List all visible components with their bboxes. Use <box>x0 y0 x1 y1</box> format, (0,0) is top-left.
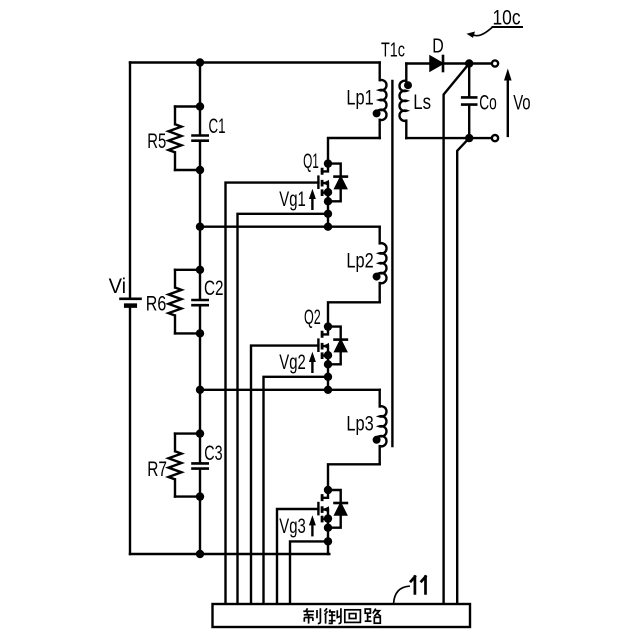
label 11 <box>411 577 426 594</box>
svg-text:R5: R5 <box>147 130 166 153</box>
node Q3 sense <box>324 537 332 545</box>
node C2 top / R6 top <box>196 266 204 274</box>
svg-text:C2: C2 <box>204 277 224 300</box>
node C3 bottom / R7 bottom <box>196 492 204 500</box>
node stage1 wire <box>200 225 380 227</box>
node Q1 diode return <box>324 197 332 205</box>
node C1 top / R5 top <box>196 102 204 110</box>
arrow Vo <box>504 69 512 136</box>
svg-text:C3: C3 <box>204 442 222 465</box>
capacitor Co <box>462 64 476 139</box>
body diode Q1 <box>328 164 341 177</box>
channel Q1 <box>321 168 324 196</box>
node stage2 junction <box>196 386 204 394</box>
svg-text:R6: R6 <box>146 293 167 316</box>
svg-text:R7: R7 <box>147 458 167 481</box>
wire diode to terminal <box>443 62 491 64</box>
node bottom rail junction <box>196 550 204 558</box>
body lead Q1 with arrow <box>322 183 328 192</box>
control circuit box 11 <box>213 604 471 627</box>
svg-text:Vg2: Vg2 <box>279 351 306 374</box>
node Q1 sense <box>324 210 332 218</box>
node Q2 sense <box>324 373 332 381</box>
kanji gyo <box>324 608 341 623</box>
polarity dot Lp3 <box>373 436 381 444</box>
transformer core <box>391 81 393 446</box>
wire Q3 source down <box>327 519 329 554</box>
wire top rail <box>130 61 380 63</box>
gate bar Q2 <box>317 338 319 352</box>
transistor Q3 <box>277 486 347 603</box>
node Q3 drain <box>324 486 332 494</box>
wire Q2 sense <box>264 377 329 603</box>
node stage2 wire <box>200 389 380 391</box>
wire Lp1 to Q1 drain <box>328 138 380 164</box>
label control circuit kanji <box>303 608 381 623</box>
node Q3 diode return <box>324 524 332 532</box>
leader arrow 10c <box>467 27 493 38</box>
terminal output minus <box>492 135 498 141</box>
channel Q2 <box>321 331 324 359</box>
polarity dot Lp1 <box>373 109 381 117</box>
arrow Vg1 <box>311 196 313 209</box>
wire Lp3 to Q3 drain <box>328 464 380 490</box>
transformer T1c primary winding Lp1 <box>380 63 387 139</box>
kanji ro <box>365 609 381 624</box>
node Q1 drain <box>324 159 332 167</box>
node output bottom <box>465 134 473 142</box>
wire Q1 drain lead <box>322 164 328 172</box>
wire Q2 drain lead <box>322 327 328 335</box>
body diode Q3 <box>328 490 341 503</box>
wire capacitor rail segment 1 <box>199 63 201 135</box>
terminal output plus <box>492 60 498 66</box>
node Q3 source <box>324 514 332 522</box>
transistor Q2 <box>251 306 347 603</box>
diode D <box>430 56 443 71</box>
svg-text:C1: C1 <box>209 115 226 138</box>
svg-text:Co: Co <box>479 91 497 114</box>
battery Vi <box>121 299 141 306</box>
svg-text:Vo: Vo <box>513 91 530 114</box>
node top rail junction <box>196 58 204 66</box>
wire capacitor rail segment 3 <box>199 306 201 462</box>
node Q2 source <box>324 351 332 359</box>
wire capacitor rail segment 2 <box>199 142 201 299</box>
node Q2 stage <box>324 386 332 394</box>
wire Q3 sense <box>290 541 328 603</box>
wire Q2 source down <box>327 355 329 390</box>
wire left rail lower <box>129 306 131 554</box>
transformer T1c primary winding Lp3 <box>380 390 387 465</box>
wire Q1 source lead <box>322 191 328 193</box>
wire Q1 sense <box>238 214 329 603</box>
arrow Vg2 <box>311 359 313 372</box>
node C2 bottom / R6 bottom <box>196 329 204 337</box>
wire Q3 gate lead <box>277 509 318 603</box>
gate bar Q3 <box>317 502 319 516</box>
arrow Vg3 <box>311 522 313 535</box>
svg-text:Q1: Q1 <box>303 150 319 173</box>
svg-text:Ls: Ls <box>413 91 431 114</box>
kanji sei <box>303 608 320 623</box>
svg-text:D: D <box>432 35 444 57</box>
svg-text:Vi: Vi <box>109 275 127 298</box>
transformer T1c primary winding Lp2 <box>380 227 387 303</box>
resistor R5 <box>169 107 201 171</box>
svg-text:Lp1: Lp1 <box>346 87 373 110</box>
node stage1 junction <box>196 223 204 231</box>
wire left rail upper <box>129 63 131 299</box>
resistor R7 <box>169 434 201 497</box>
capacitor C2 <box>193 300 208 305</box>
channel Q3 <box>321 494 324 522</box>
svg-text:Vg1: Vg1 <box>279 188 306 211</box>
wire capacitor rail segment 4 <box>199 470 201 554</box>
node Q2 diode return <box>324 360 332 368</box>
svg-text:T1c: T1c <box>381 40 405 62</box>
underline 10c <box>493 26 523 28</box>
polarity dot Ls <box>404 81 412 89</box>
wire Q3 source lead <box>322 518 328 520</box>
wire Q3 drain lead <box>322 490 328 498</box>
transformer secondary winding Ls <box>400 64 407 139</box>
node output top <box>465 59 473 67</box>
polarity dot Lp2 <box>373 273 381 281</box>
wire bottom rail <box>130 553 329 555</box>
wire Q1 source down <box>327 192 329 227</box>
body lead Q3 with arrow <box>322 510 328 519</box>
wire Q2 gate lead <box>251 346 318 604</box>
wire Q2 source lead <box>322 354 328 356</box>
wire sense line 1 <box>444 64 470 604</box>
resistor R6 <box>169 270 201 334</box>
capacitor C3 <box>193 463 208 468</box>
node C1 bottom / R5 bottom <box>196 166 204 174</box>
svg-text:Vg3: Vg3 <box>279 515 306 538</box>
node Q1 stage <box>324 223 332 231</box>
capacitor C1 <box>193 136 208 141</box>
wire secondary top <box>406 62 430 64</box>
wire sense line 2 <box>457 138 469 603</box>
wire secondary bottom <box>406 137 491 139</box>
node C3 top / R7 top <box>196 429 204 437</box>
kanji kai <box>345 610 361 623</box>
body lead Q2 with arrow <box>322 346 328 355</box>
body diode Q2 <box>328 327 341 340</box>
svg-text:Lp3: Lp3 <box>346 412 373 435</box>
wire Lp2 to Q2 drain <box>328 302 380 326</box>
wire Q1 gate lead <box>226 183 319 604</box>
transistor Q1 <box>226 150 347 603</box>
gate bar Q1 <box>317 175 319 189</box>
svg-text:Lp2: Lp2 <box>346 250 373 273</box>
svg-text:Q2: Q2 <box>304 306 321 329</box>
leader 11 <box>394 586 409 603</box>
node Q1 source <box>324 188 332 196</box>
node Q2 drain <box>324 322 332 330</box>
